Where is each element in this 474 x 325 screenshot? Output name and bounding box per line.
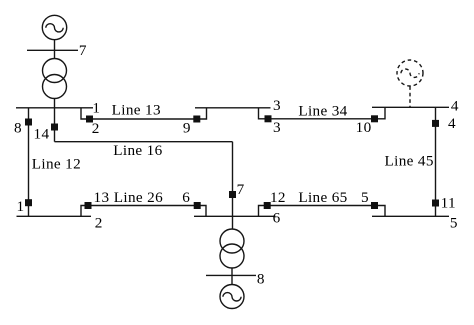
svg-text:6: 6 (273, 210, 281, 227)
svg-text:9: 9 (183, 120, 191, 137)
svg-text:Line 45: Line 45 (385, 152, 434, 169)
svg-text:1: 1 (17, 198, 25, 215)
svg-text:8: 8 (257, 270, 265, 287)
svg-text:Line 65: Line 65 (298, 189, 347, 206)
svg-text:14: 14 (34, 126, 50, 143)
svg-text:Line 26: Line 26 (114, 189, 163, 206)
svg-text:1: 1 (92, 100, 100, 117)
svg-text:6: 6 (182, 189, 190, 206)
svg-text:Line 34: Line 34 (298, 103, 347, 120)
svg-text:Line 12: Line 12 (32, 155, 81, 172)
svg-text:2: 2 (92, 120, 100, 137)
svg-text:7: 7 (237, 181, 245, 198)
svg-text:4: 4 (451, 97, 459, 114)
svg-text:10: 10 (356, 119, 372, 136)
svg-text:3: 3 (273, 97, 281, 114)
svg-text:3: 3 (273, 119, 281, 136)
svg-text:4: 4 (448, 115, 456, 132)
svg-text:5: 5 (450, 215, 458, 232)
svg-text:7: 7 (79, 42, 87, 59)
svg-text:13: 13 (94, 189, 110, 206)
svg-text:8: 8 (14, 120, 22, 137)
svg-text:12: 12 (270, 189, 286, 206)
svg-text:Line 16: Line 16 (113, 142, 162, 159)
svg-text:Line 13: Line 13 (112, 101, 161, 118)
svg-text:5: 5 (361, 189, 369, 206)
svg-text:2: 2 (95, 215, 103, 232)
svg-text:11: 11 (441, 194, 456, 211)
